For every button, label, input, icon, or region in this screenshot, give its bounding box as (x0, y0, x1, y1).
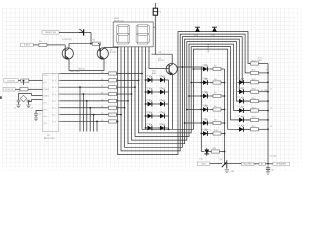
svg-text:Q1 BC547: Q1 BC547 (62, 39, 73, 41)
svg-text:P3.0: P3.0 (43, 75, 47, 77)
svg-text:AT89C2051: AT89C2051 (44, 137, 56, 140)
svg-text:LD5: LD5 (147, 123, 150, 125)
svg-text:P1.4: P1.4 (52, 94, 56, 96)
svg-text:CON RX: CON RX (7, 80, 16, 82)
svg-text:P3.4: P3.4 (43, 116, 47, 118)
svg-text:LD2: LD2 (147, 87, 150, 89)
svg-text:D5: D5 (238, 97, 240, 99)
svg-text:P3.1: P3.1 (43, 82, 47, 84)
svg-text:LED1: LED1 (203, 64, 208, 66)
svg-text:CON TX: CON TX (5, 89, 13, 91)
svg-text:LD3: LD3 (147, 99, 150, 101)
svg-text:LD1: LD1 (147, 75, 150, 77)
svg-text:D8: D8 (238, 125, 240, 127)
svg-text:P1.1: P1.1 (52, 115, 56, 117)
svg-text:P1.5: P1.5 (52, 87, 56, 89)
svg-text:+5V: +5V (158, 52, 162, 54)
svg-text:RESET SW: RESET SW (45, 32, 56, 34)
svg-text:D6: D6 (238, 106, 240, 108)
svg-text:LED6: LED6 (203, 129, 208, 131)
svg-text:BC557: BC557 (158, 60, 165, 62)
svg-text:C5 100n: C5 100n (270, 156, 277, 158)
svg-text:BAR: BAR (152, 72, 157, 75)
svg-text:P3.2: P3.2 (43, 103, 47, 105)
svg-text:Q4: Q4 (220, 159, 223, 161)
svg-text:a1: a1 (270, 126, 272, 128)
svg-text:c1: c1 (270, 107, 272, 109)
svg-text:C4: C4 (39, 114, 41, 116)
svg-text:S.SET: S.SET (24, 45, 31, 47)
svg-text:e1: e1 (270, 89, 272, 91)
svg-text:XTAL1: XTAL1 (43, 95, 49, 98)
svg-text:RN1 220R: RN1 220R (70, 71, 80, 73)
svg-text:C2: C2 (14, 108, 16, 110)
svg-text:P1.0: P1.0 (52, 121, 56, 123)
svg-text:P1.3: P1.3 (52, 101, 56, 103)
svg-text:XTAL2: XTAL2 (43, 88, 49, 91)
svg-text:BUZZER: BUZZER (243, 164, 252, 166)
svg-text:LED2: LED2 (203, 78, 208, 80)
svg-text:D4: D4 (238, 87, 240, 89)
svg-text:C3: C3 (31, 108, 33, 110)
svg-text:LED5: LED5 (203, 118, 208, 120)
svg-text:LEDBAR9: LEDBAR9 (207, 44, 210, 54)
svg-text:LED3: LED3 (203, 91, 208, 93)
svg-text:LD9: LD9 (159, 111, 162, 113)
svg-text:LD10: LD10 (159, 123, 163, 125)
svg-text:D7: D7 (238, 116, 240, 118)
svg-text:P3.5: P3.5 (43, 123, 47, 125)
svg-text:LD7: LD7 (159, 87, 162, 89)
svg-text:P1.6: P1.6 (52, 80, 56, 82)
svg-text:LD6: LD6 (159, 75, 162, 77)
svg-text:LED4: LED4 (203, 105, 208, 107)
svg-text:GND: GND (231, 171, 236, 173)
svg-text:P1.7: P1.7 (52, 73, 56, 75)
svg-text:P3.3: P3.3 (43, 109, 47, 111)
svg-text:LD8: LD8 (159, 99, 162, 101)
svg-text:SPEAKER: SPEAKER (276, 163, 286, 166)
svg-text:SND: SND (201, 163, 206, 165)
svg-text:PL CAP: PL CAP (261, 89, 268, 92)
svg-text:LD4: LD4 (147, 111, 150, 113)
svg-text:D12: D12 (200, 159, 203, 161)
svg-text:P1.2: P1.2 (52, 108, 56, 110)
svg-text:X1: X1 (18, 91, 20, 93)
svg-text:g1: g1 (266, 69, 268, 71)
svg-text:D3: D3 (238, 78, 240, 80)
